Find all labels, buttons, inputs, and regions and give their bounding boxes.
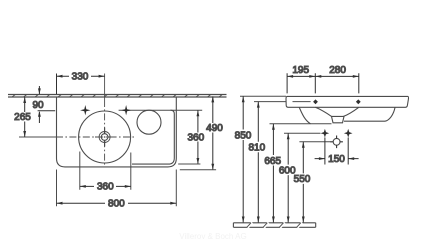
svg-text:Villeroy & Boch AG: Villeroy & Boch AG	[179, 232, 246, 239]
wall fitting star right (front)	[344, 129, 353, 138]
svg-text:550: 550	[294, 174, 311, 185]
tap hole star left (plan)	[80, 105, 90, 115]
underside right	[344, 108, 395, 122]
inner bowl curve right	[344, 107, 359, 116]
svg-text:90: 90	[32, 100, 44, 111]
dim 330	[57, 74, 105, 95]
dim 360 bottom (plan)	[80, 185, 131, 188]
tap hole diamond 1 (front)	[313, 99, 318, 104]
ext 550 (to circle)	[299, 141, 331, 143]
vertical dim 665	[272, 124, 275, 223]
ext line A (850 ref, rim top)	[240, 95, 286, 97]
wall hatch strip (plan view)	[8, 94, 227, 97]
dim 800 bottom (plan)	[57, 202, 177, 205]
vertical dim 550	[302, 142, 305, 223]
dim 360 right (plan)	[197, 110, 200, 164]
svg-text:490: 490	[206, 123, 223, 134]
svg-text:850: 850	[235, 130, 252, 141]
tap hole star right (plan)	[121, 105, 131, 115]
vertical dim 600	[287, 133, 290, 222]
dim 90	[38, 86, 56, 123]
fixing circle symbol (front)	[330, 136, 343, 149]
ext line outer-bottom (for 490)	[180, 169, 216, 171]
dim 150	[315, 138, 359, 165]
wall fitting star left (front)	[321, 129, 330, 138]
svg-text:800: 800	[108, 198, 125, 209]
drain trap (front view)	[332, 116, 345, 122]
ext lines bottom 360 (plan)	[80, 152, 131, 190]
dim 490	[211, 96, 214, 169]
svg-text:330: 330	[72, 72, 89, 83]
underside left + 665 ext line	[270, 123, 332, 125]
rim outline left end, bottom line, right end	[286, 96, 408, 107]
bowl horizontal centerline	[19, 136, 56, 138]
underside left curve	[299, 107, 310, 124]
ext lines bottom 800 (plan)	[57, 170, 177, 207]
svg-text:360: 360	[97, 182, 114, 193]
svg-text:360: 360	[187, 133, 204, 144]
vertical dim 850	[242, 96, 245, 222]
basin outer outline (plan view)	[57, 97, 177, 167]
vertical dim 810	[257, 102, 260, 223]
dims 195 / 280	[287, 73, 359, 93]
inner deck contour (plan view)	[132, 110, 174, 164]
centerline B (810 ref) through rim	[254, 101, 311, 103]
svg-text:810: 810	[248, 143, 265, 154]
rim top line	[287, 95, 408, 97]
svg-text:150: 150	[328, 154, 345, 165]
svg-text:265: 265	[14, 112, 31, 123]
drain symbol	[95, 128, 114, 147]
svg-text:280: 280	[329, 65, 346, 76]
bowl vertical centerline	[104, 74, 106, 101]
ext 600 (to star)	[284, 132, 321, 134]
floor hatch strip	[233, 222, 315, 227]
ext line inner-bottom (for 360 right)	[178, 163, 200, 165]
bowl circle	[79, 111, 131, 163]
tap-hole centerline extension (plan view)	[119, 109, 203, 111]
small circle (soap recess)	[137, 110, 161, 134]
tap hole diamond 2 (front)	[356, 99, 361, 104]
inner bowl curve left	[315, 107, 331, 116]
svg-text:195: 195	[292, 65, 309, 76]
dim 265	[23, 97, 26, 137]
